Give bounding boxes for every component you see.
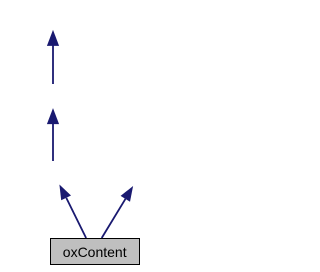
arrow middle (inheritance edge)	[47, 108, 59, 161]
arrow top (inheritance edge to topmost base class)	[47, 30, 59, 84]
svg-text:oxContent: oxContent	[63, 244, 127, 260]
box oxContent (current class node)	[51, 239, 140, 265]
arrow diagonal left (oxContent to left base class)	[59, 185, 86, 239]
arrow diagonal right (oxContent to right base class)	[102, 186, 133, 238]
